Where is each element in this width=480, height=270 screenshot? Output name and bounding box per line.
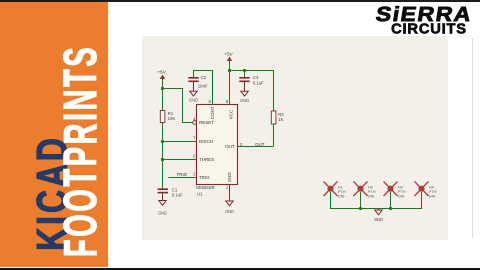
pin names bbox=[199, 106, 235, 182]
wire +5V#2 down to VCC bbox=[229, 62, 231, 105]
svg-text:DNI: DNI bbox=[398, 194, 405, 198]
wire +5V rail to R2 bbox=[230, 71, 274, 112]
capacitor C3 bbox=[239, 78, 249, 82]
svg-text:TRIG: TRIG bbox=[177, 172, 188, 177]
logo CIRCUITS bbox=[428, 28, 430, 30]
svg-text:+5V: +5V bbox=[158, 70, 167, 75]
wire hole H2 drop bbox=[360, 192, 362, 209]
svg-text:DNI: DNI bbox=[368, 194, 375, 198]
svg-text:DISCH: DISCH bbox=[199, 139, 213, 144]
power symbol +5V #2 bbox=[228, 58, 232, 61]
wire R1 bottom to C1 bbox=[162, 123, 164, 189]
junction H2 bbox=[359, 207, 362, 210]
svg-text:GND: GND bbox=[189, 98, 198, 103]
svg-text:C2: C2 bbox=[201, 75, 207, 80]
svg-text:OUT: OUT bbox=[255, 142, 265, 147]
capacitor C2 bbox=[188, 78, 198, 82]
svg-text:H4: H4 bbox=[429, 185, 434, 189]
svg-text:U1: U1 bbox=[197, 191, 203, 196]
svg-text:OUT: OUT bbox=[225, 144, 235, 149]
wire R2 bottom to OUT corner bbox=[273, 124, 275, 146]
svg-text:DNI: DNI bbox=[429, 194, 436, 198]
mounting hole H4 bbox=[415, 181, 437, 198]
sidebar text FOOTPRINTS bbox=[79, 150, 81, 152]
wire +5V#1 down to R1 bbox=[162, 80, 164, 111]
junction C3 bbox=[243, 69, 246, 72]
svg-text:PTH: PTH bbox=[398, 190, 406, 194]
svg-text:+5V: +5V bbox=[224, 52, 233, 57]
wire THRES bbox=[163, 159, 197, 161]
pin numbers bbox=[193, 99, 243, 189]
svg-text:THRES: THRES bbox=[199, 157, 214, 162]
svg-text:GND: GND bbox=[225, 209, 234, 214]
wire GND stub holes bbox=[378, 209, 380, 211]
mounting hole H2 bbox=[354, 181, 376, 198]
svg-text:H1: H1 bbox=[338, 185, 343, 189]
svg-text:GND: GND bbox=[227, 172, 232, 183]
ground below C3 bbox=[241, 91, 248, 96]
ground below C2 bbox=[190, 91, 197, 96]
wire +5V#1 branch to RESET bbox=[163, 89, 193, 123]
resistor R1 bbox=[160, 111, 165, 123]
power symbol +5V #1 bbox=[161, 76, 165, 79]
svg-text:0.1uF: 0.1uF bbox=[172, 192, 183, 197]
mounting hole H3 bbox=[384, 181, 406, 198]
wire C3 top bbox=[244, 71, 246, 78]
svg-text:GND: GND bbox=[158, 211, 167, 216]
wire OUT bbox=[238, 146, 274, 148]
svg-text:NE555DR: NE555DR bbox=[196, 185, 215, 190]
ground below C1 bbox=[159, 201, 166, 206]
schematic canvas bbox=[142, 36, 448, 240]
beige background bbox=[142, 36, 448, 240]
svg-text:PTH: PTH bbox=[338, 190, 346, 194]
+5V symbol stems bbox=[162, 77, 164, 81]
wire U1 GND pin lead bbox=[229, 185, 231, 202]
svg-text:CONT: CONT bbox=[210, 106, 215, 119]
wire C3 bottom to GND bbox=[244, 81, 246, 91]
svg-text:C3: C3 bbox=[253, 75, 259, 80]
svg-text:10K: 10K bbox=[168, 116, 176, 121]
bottom dark line bbox=[0, 268, 480, 270]
svg-text:DNI: DNI bbox=[338, 194, 345, 198]
logo SIERRA bbox=[423, 14, 425, 16]
wire DISCH bbox=[163, 141, 197, 143]
svg-text:GND: GND bbox=[374, 217, 383, 222]
wire C1 bottom to GND bbox=[162, 193, 164, 201]
svg-text:H2: H2 bbox=[368, 185, 373, 189]
ground below hole bus bbox=[375, 210, 382, 215]
capacitor C1 bbox=[158, 189, 168, 192]
svg-text:VCC: VCC bbox=[228, 109, 233, 119]
svg-text:H3: H3 bbox=[398, 185, 403, 189]
svg-text:1K: 1K bbox=[278, 117, 283, 122]
svg-text:TRIG: TRIG bbox=[199, 175, 210, 180]
wire hole H3 drop bbox=[390, 192, 392, 209]
orange sidebar bbox=[0, 2, 108, 267]
sidebar text KICAD bbox=[52, 192, 54, 194]
svg-text:10nF: 10nF bbox=[198, 83, 208, 88]
top dark line bbox=[0, 0, 480, 2]
wire C2 bottom to GND bbox=[193, 81, 195, 91]
junction +5V rail bbox=[228, 69, 231, 72]
junction at +5V/R1 bbox=[161, 87, 164, 90]
svg-text:RESET: RESET bbox=[199, 120, 214, 125]
ground below U1 bbox=[226, 201, 233, 206]
svg-text:PTH: PTH bbox=[368, 190, 376, 194]
mounting hole H1 bbox=[324, 181, 346, 198]
junction THRES bbox=[161, 158, 164, 161]
junction H3 bbox=[389, 207, 392, 210]
resistor R2 bbox=[271, 111, 276, 124]
op-amp U1 555 timer body bbox=[197, 105, 238, 185]
wire C2 top to CONT bbox=[194, 71, 213, 105]
svg-text:0.1uF: 0.1uF bbox=[253, 80, 264, 85]
maroon component leads bbox=[163, 59, 245, 202]
wire hole bus bbox=[331, 192, 422, 209]
svg-text:PTH: PTH bbox=[429, 190, 437, 194]
svg-text:GND: GND bbox=[240, 98, 249, 103]
pin RESET bubble bbox=[193, 121, 197, 125]
wire TRIG stub bbox=[168, 177, 196, 179]
junction DISCH bbox=[161, 140, 164, 143]
faint vertical artifact line bbox=[472, 38, 473, 238]
